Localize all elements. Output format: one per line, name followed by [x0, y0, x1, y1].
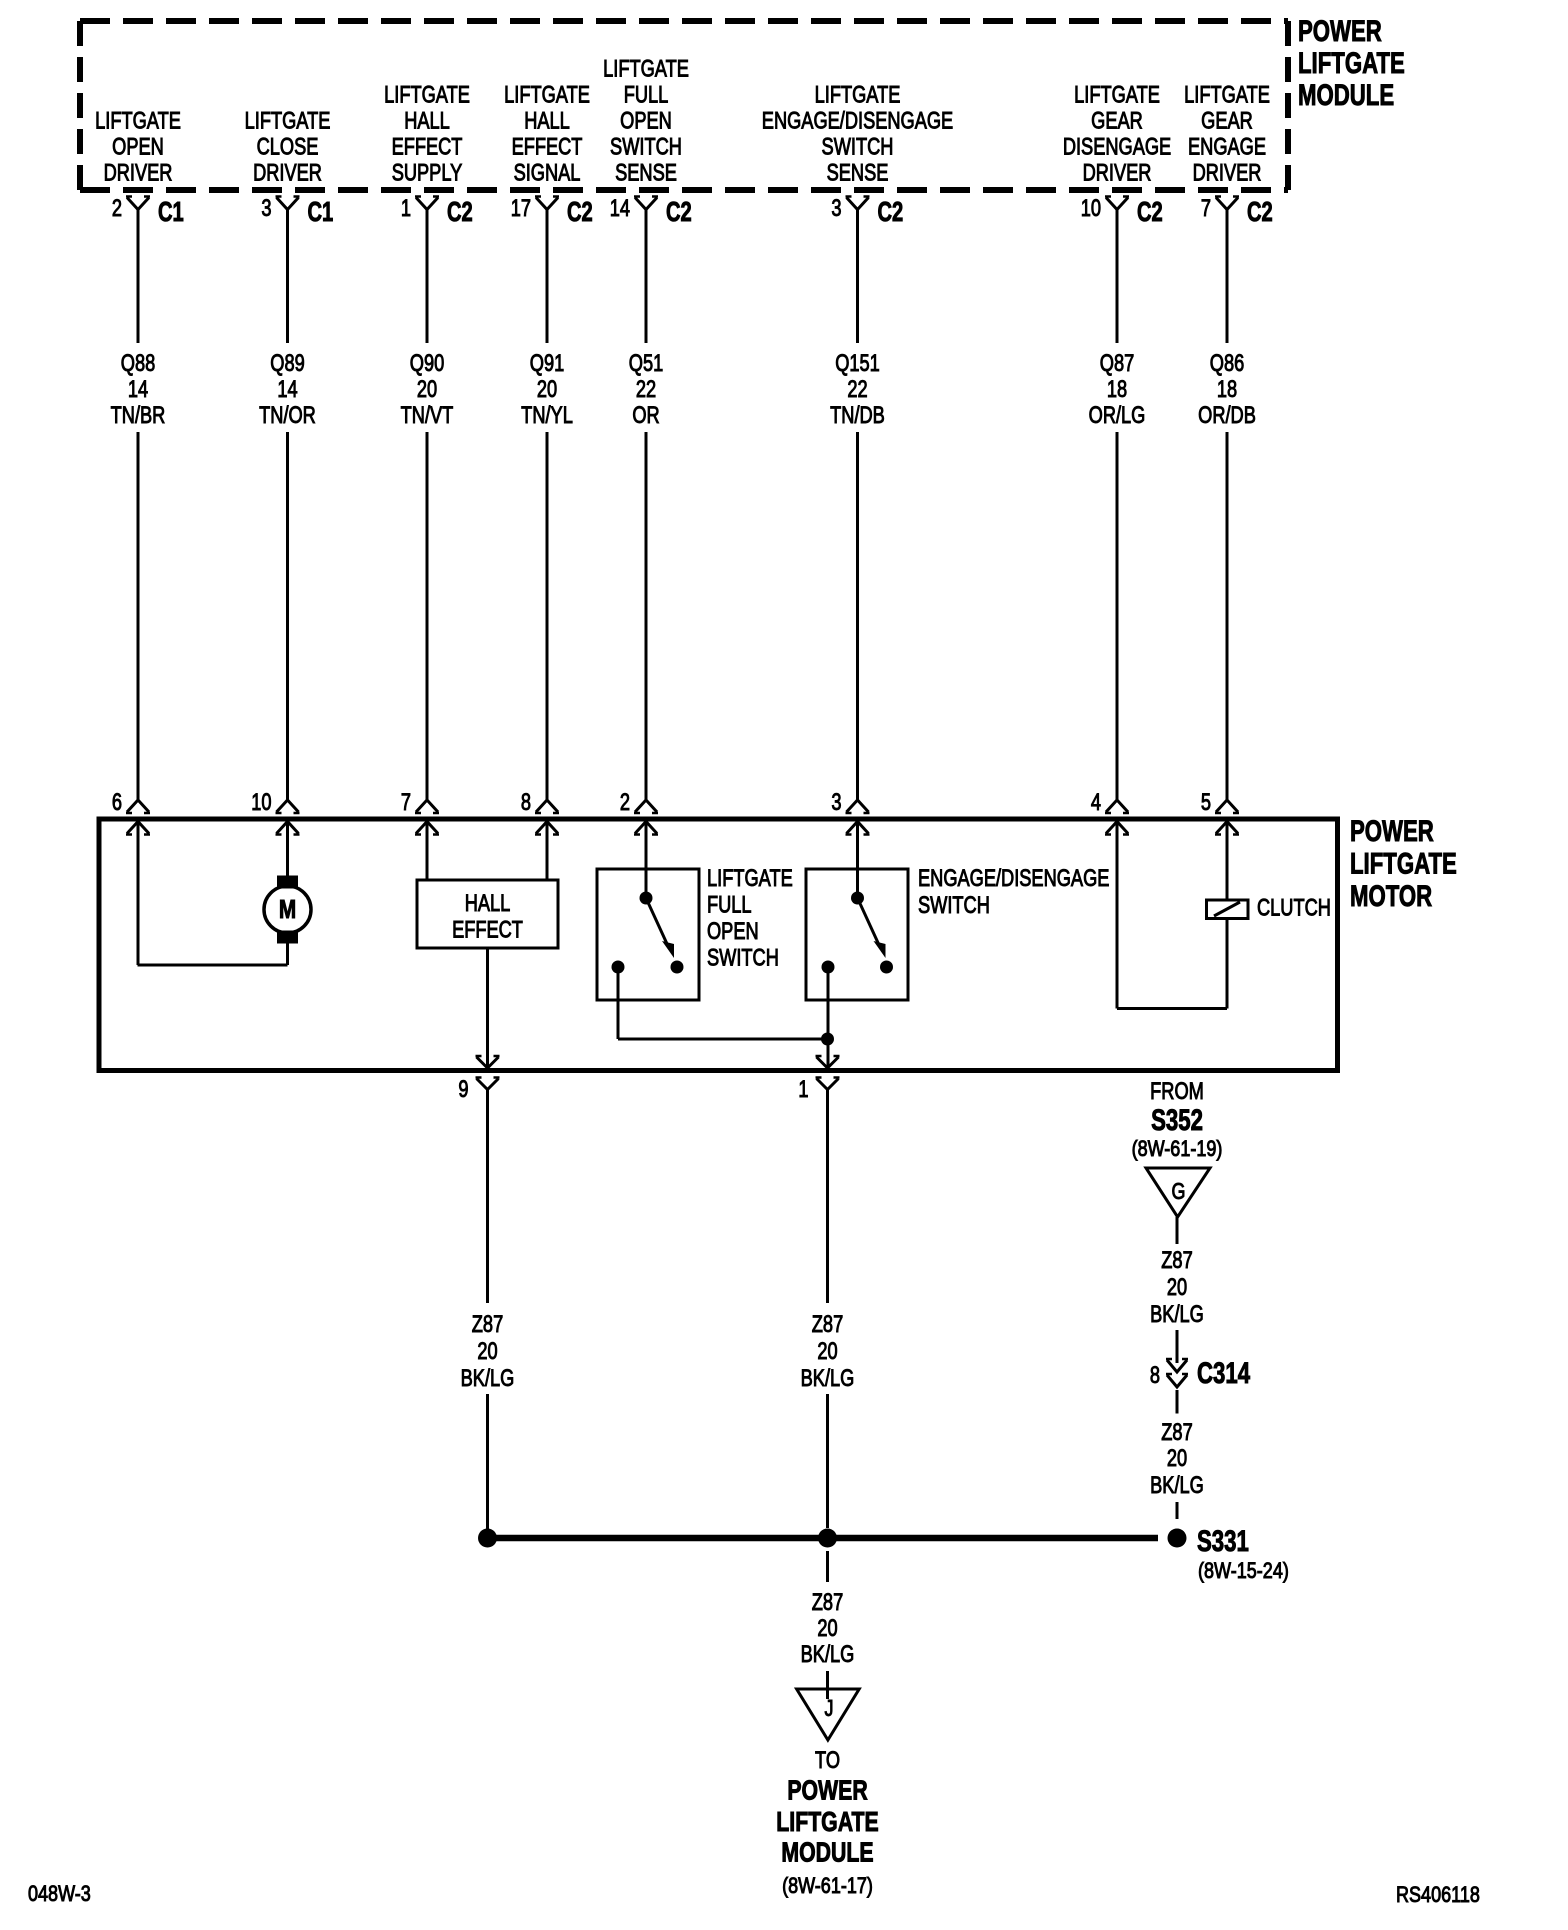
triangle G — [1146, 1168, 1210, 1217]
svg-text:18: 18 — [1217, 376, 1237, 403]
svg-text:10: 10 — [1081, 195, 1101, 222]
svg-text:22: 22 — [636, 376, 656, 403]
svg-text:ENGAGE/DISENGAGE: ENGAGE/DISENGAGE — [762, 107, 953, 134]
wire Q151 22 TN/DB — [856, 210, 859, 344]
svg-text:10: 10 — [251, 789, 271, 816]
svg-text:DRIVER: DRIVER — [1083, 159, 1152, 186]
svg-text:Q91: Q91 — [530, 350, 564, 377]
svg-text:BK/LG: BK/LG — [801, 1641, 855, 1668]
svg-text:1: 1 — [401, 195, 411, 222]
connector: motor pin 4 — [1106, 800, 1128, 812]
svg-text:S331: S331 — [1197, 1524, 1249, 1558]
connector: motor pin 9 — [477, 1057, 499, 1068]
component box: POWER LIFTGATE MOTOR — [99, 819, 1338, 1071]
svg-text:GEAR: GEAR — [1201, 107, 1253, 134]
wire Z87 20 BK/LG (from G) — [1176, 1217, 1179, 1244]
svg-text:Z87: Z87 — [1161, 1247, 1192, 1274]
svg-text:LIFTGATE: LIFTGATE — [776, 1806, 878, 1838]
svg-text:S352: S352 — [1151, 1103, 1203, 1137]
svg-text:LIFTGATE: LIFTGATE — [504, 81, 590, 108]
svg-text:C314: C314 — [1197, 1356, 1250, 1390]
svg-text:6: 6 — [112, 789, 122, 816]
svg-text:(8W-61-19): (8W-61-19) — [1132, 1137, 1223, 1161]
svg-text:3: 3 — [261, 195, 271, 222]
engage/disengage switch — [856, 822, 859, 899]
connector: motor pin 5 — [1216, 800, 1238, 812]
svg-text:FROM: FROM — [1150, 1078, 1204, 1105]
svg-text:C2: C2 — [878, 197, 904, 228]
svg-text:C2: C2 — [1137, 197, 1163, 228]
svg-text:POWER: POWER — [787, 1775, 867, 1807]
wire Q51 22 OR — [645, 210, 648, 344]
junction — [821, 1033, 834, 1046]
svg-text:HALL: HALL — [404, 107, 450, 134]
svg-text:Z87: Z87 — [812, 1311, 843, 1338]
svg-text:MODULE: MODULE — [781, 1837, 873, 1869]
svg-text:(8W-15-24): (8W-15-24) — [1198, 1559, 1289, 1583]
wire: switch commons to pin 1 — [617, 967, 620, 1039]
svg-text:MOTOR: MOTOR — [1350, 879, 1432, 913]
svg-text:20: 20 — [537, 376, 557, 403]
svg-text:SWITCH: SWITCH — [918, 892, 990, 919]
svg-text:POWER: POWER — [1350, 814, 1434, 848]
svg-text:C2: C2 — [666, 197, 692, 228]
svg-text:LIFTGATE: LIFTGATE — [245, 107, 331, 134]
svg-text:20: 20 — [1167, 1445, 1187, 1472]
svg-text:C1: C1 — [158, 197, 184, 228]
svg-text:Q151: Q151 — [835, 350, 880, 377]
motor M — [286, 822, 289, 877]
svg-text:SENSE: SENSE — [615, 159, 677, 186]
wire Q87 18 OR/LG — [1116, 210, 1119, 344]
svg-text:OR/DB: OR/DB — [1198, 402, 1256, 429]
svg-text:TO: TO — [815, 1747, 840, 1774]
connector pin 3 C2 — [847, 198, 869, 210]
svg-text:TN/VT: TN/VT — [401, 402, 454, 429]
wire Q88 14 TN/BR — [137, 210, 140, 344]
svg-text:22: 22 — [847, 376, 867, 403]
svg-text:7: 7 — [1201, 195, 1211, 222]
connector: motor pin 6 — [127, 800, 149, 812]
svg-text:LIFTGATE: LIFTGATE — [1074, 81, 1160, 108]
svg-text:TN/OR: TN/OR — [259, 402, 316, 429]
svg-text:BK/LG: BK/LG — [1150, 1472, 1204, 1499]
connector pin 1 C2 — [416, 198, 438, 210]
svg-text:LIFTGATE: LIFTGATE — [603, 55, 689, 82]
svg-text:BK/LG: BK/LG — [461, 1365, 515, 1392]
svg-text:BK/LG: BK/LG — [1150, 1301, 1204, 1328]
wire Z87 20 BK/LG (S331 to J) — [826, 1551, 829, 1582]
svg-text:14: 14 — [128, 376, 148, 403]
svg-text:EFFECT: EFFECT — [452, 916, 523, 943]
svg-text:18: 18 — [1107, 376, 1127, 403]
connector: motor pin 3 — [847, 800, 869, 812]
svg-text:MODULE: MODULE — [1298, 78, 1394, 112]
svg-text:C1: C1 — [308, 197, 334, 228]
svg-text:Q87: Q87 — [1100, 350, 1134, 377]
svg-text:Q89: Q89 — [270, 350, 304, 377]
svg-text:ENGAGE/DISENGAGE: ENGAGE/DISENGAGE — [918, 865, 1109, 892]
connector pin 10 C2 — [1106, 198, 1128, 210]
splice S331 — [478, 1529, 497, 1548]
connector: motor pin 10 — [277, 800, 299, 812]
hall effect sensor — [426, 822, 429, 881]
svg-text:C2: C2 — [567, 197, 593, 228]
svg-text:9: 9 — [458, 1076, 468, 1103]
wire: hall effect output to pin 9 — [486, 948, 489, 1068]
wire: motor loop to pin 6 — [286, 943, 289, 965]
svg-text:8: 8 — [1150, 1362, 1160, 1389]
connector: motor pin 8 — [536, 800, 558, 812]
svg-text:OR: OR — [632, 402, 659, 429]
svg-text:ENGAGE: ENGAGE — [1188, 133, 1266, 160]
svg-text:OR/LG: OR/LG — [1089, 402, 1146, 429]
connector pin 7 C2 — [1216, 198, 1238, 210]
connector: motor pin 7 — [416, 800, 438, 812]
svg-text:C2: C2 — [1247, 197, 1273, 228]
svg-text:5: 5 — [1201, 789, 1211, 816]
connector: motor pin 2 — [635, 800, 657, 812]
svg-text:HALL: HALL — [465, 890, 511, 917]
svg-text:3: 3 — [831, 195, 841, 222]
connector C314 pin 8 — [1167, 1360, 1187, 1372]
svg-text:C2: C2 — [447, 197, 473, 228]
svg-text:LIFTGATE: LIFTGATE — [1184, 81, 1270, 108]
svg-text:SWITCH: SWITCH — [707, 944, 779, 971]
svg-text:LIFTGATE: LIFTGATE — [95, 107, 181, 134]
svg-text:FULL: FULL — [624, 81, 669, 108]
wire Q90 20 TN/VT — [426, 210, 429, 344]
wire Q89 14 TN/OR — [286, 210, 289, 344]
connector pin 2 C1 — [127, 198, 149, 210]
svg-text:SIGNAL: SIGNAL — [514, 159, 581, 186]
svg-text:POWER: POWER — [1298, 14, 1382, 48]
svg-text:J: J — [825, 1696, 834, 1722]
svg-text:TN/DB: TN/DB — [830, 402, 885, 429]
svg-text:DRIVER: DRIVER — [253, 159, 322, 186]
svg-text:DISENGAGE: DISENGAGE — [1063, 133, 1171, 160]
svg-text:2: 2 — [620, 789, 630, 816]
svg-text:BK/LG: BK/LG — [801, 1365, 855, 1392]
wire Z87 20 BK/LG (below C314) — [1176, 1390, 1179, 1414]
svg-text:048W-3: 048W-3 — [28, 1882, 91, 1906]
svg-text:DRIVER: DRIVER — [104, 159, 173, 186]
wire Z87 20 BK/LG (pin 1 branch) — [826, 1090, 829, 1304]
svg-text:CLOSE: CLOSE — [257, 133, 319, 160]
svg-text:Q51: Q51 — [629, 350, 663, 377]
off-page ref J — [797, 1689, 860, 1740]
svg-text:20: 20 — [1167, 1274, 1187, 1301]
svg-text:LIFTGATE: LIFTGATE — [1298, 46, 1405, 80]
svg-text:20: 20 — [817, 1615, 837, 1642]
svg-text:M: M — [279, 895, 296, 924]
svg-text:DRIVER: DRIVER — [1193, 159, 1262, 186]
svg-text:LIFTGATE: LIFTGATE — [707, 865, 793, 892]
svg-text:Q90: Q90 — [410, 350, 445, 377]
svg-text:SUPPLY: SUPPLY — [392, 159, 463, 186]
svg-text:HALL: HALL — [524, 107, 570, 134]
svg-text:Z87: Z87 — [1161, 1419, 1192, 1446]
svg-text:EFFECT: EFFECT — [392, 133, 463, 160]
wire Z87 20 BK/LG (pin 9 branch) — [486, 1090, 489, 1304]
svg-text:Q88: Q88 — [121, 350, 155, 377]
connector pin 14 C2 — [635, 198, 657, 210]
connector: motor pin 1 — [817, 1057, 839, 1068]
svg-text:TN/YL: TN/YL — [521, 402, 573, 429]
svg-text:SENSE: SENSE — [827, 159, 889, 186]
svg-text:FULL: FULL — [707, 891, 752, 918]
connector pin 17 C2 — [536, 198, 558, 210]
connector pin 3 C1 — [277, 198, 299, 210]
svg-text:8: 8 — [521, 789, 531, 816]
svg-text:EFFECT: EFFECT — [512, 133, 583, 160]
svg-text:LIFTGATE: LIFTGATE — [384, 81, 470, 108]
svg-text:OPEN: OPEN — [112, 133, 164, 160]
liftgate full open switch — [645, 822, 648, 899]
svg-text:SWITCH: SWITCH — [822, 133, 894, 160]
svg-text:GEAR: GEAR — [1091, 107, 1143, 134]
svg-text:14: 14 — [610, 195, 630, 222]
svg-text:Z87: Z87 — [472, 1311, 503, 1338]
svg-text:SWITCH: SWITCH — [610, 133, 682, 160]
svg-text:4: 4 — [1091, 789, 1101, 816]
svg-text:20: 20 — [817, 1338, 837, 1365]
clutch coil — [1116, 822, 1119, 1009]
svg-text:7: 7 — [401, 789, 411, 816]
svg-text:3: 3 — [831, 789, 841, 816]
wire Q91 20 TN/YL — [546, 210, 549, 344]
svg-text:RS406118: RS406118 — [1396, 1883, 1480, 1907]
svg-text:G: G — [1172, 1179, 1186, 1205]
svg-text:20: 20 — [417, 376, 437, 403]
svg-text:17: 17 — [511, 195, 531, 222]
svg-text:(8W-61-17): (8W-61-17) — [782, 1874, 873, 1898]
svg-text:Q86: Q86 — [1210, 350, 1244, 377]
svg-text:Z87: Z87 — [812, 1589, 843, 1616]
svg-text:LIFTGATE: LIFTGATE — [815, 81, 901, 108]
module box: POWER LIFTGATE MODULE (dashed) — [80, 18, 1288, 24]
svg-text:LIFTGATE: LIFTGATE — [1350, 846, 1457, 880]
svg-text:1: 1 — [798, 1076, 808, 1103]
svg-text:14: 14 — [277, 376, 297, 403]
svg-text:20: 20 — [477, 1338, 497, 1365]
svg-text:CLUTCH: CLUTCH — [1257, 894, 1331, 921]
wire Q86 18 OR/DB — [1226, 210, 1229, 344]
svg-text:OPEN: OPEN — [707, 918, 759, 945]
svg-text:2: 2 — [112, 195, 122, 222]
svg-text:TN/BR: TN/BR — [111, 402, 166, 429]
svg-text:OPEN: OPEN — [620, 107, 672, 134]
